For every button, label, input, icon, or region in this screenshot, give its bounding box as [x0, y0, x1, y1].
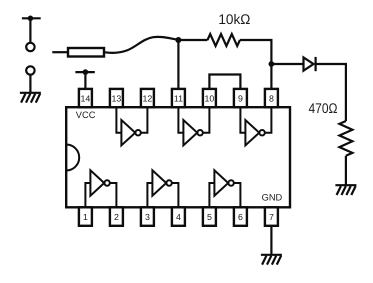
svg-text:8: 8 — [269, 93, 274, 103]
svg-text:12: 12 — [143, 93, 153, 103]
inverter U1 (input pin 13, output pin 12) — [116, 107, 147, 145]
node A (junction above pin 11) — [175, 37, 181, 43]
inverter U1 (input pin 5, output pin 6) — [209, 170, 240, 207]
terminal (lower open contact) — [26, 66, 34, 93]
VCC terminal (bar with dot above pin 14) — [75, 69, 94, 89]
svg-text:13: 13 — [112, 93, 122, 103]
inverter U1 (input pin 11, output pin 10) — [178, 107, 209, 145]
pin 3 — [141, 207, 154, 226]
wire (node A down to pin 11) — [177, 40, 179, 89]
resistor 10kΩ (zigzag) — [208, 34, 240, 46]
wire (node B to diode anode) — [271, 63, 303, 65]
svg-text:7: 7 — [269, 212, 274, 222]
svg-text:4: 4 — [176, 212, 181, 222]
IC U1 body (hex inverter DIP-14) — [66, 107, 290, 207]
pin 11 — [172, 89, 185, 107]
pin 4 — [172, 207, 185, 226]
inverter U1 (input pin 1, output pin 2) — [85, 170, 116, 207]
wire (pin 7 to ground) — [270, 226, 272, 255]
pin 1 — [79, 207, 92, 226]
svg-text:3: 3 — [145, 212, 150, 222]
svg-text:VCC: VCC — [76, 110, 96, 120]
wire (jumper loop pin 10 to pin 9) — [209, 75, 240, 89]
svg-text:1: 1 — [83, 212, 88, 222]
ground (below lower contact) — [20, 93, 41, 103]
svg-text:9: 9 — [238, 93, 243, 103]
svg-text:14: 14 — [81, 93, 91, 103]
svg-text:11: 11 — [174, 93, 183, 103]
diode (series to 470 ohm) — [304, 57, 316, 71]
pin 2 — [110, 207, 123, 226]
svg-text:2: 2 — [114, 212, 119, 222]
IC notch (pin-1 index semicircle) — [66, 145, 79, 171]
node B (junction at pin 8 / diode anode) — [269, 61, 275, 67]
inverter U1 (input pin 9, output pin 8) — [240, 107, 271, 145]
svg-text:6: 6 — [238, 212, 243, 222]
pin 7 — [265, 207, 278, 226]
pin 8 — [265, 89, 278, 107]
pin 13 — [110, 89, 123, 107]
svg-text:5: 5 — [207, 212, 212, 222]
svg-text:470Ω: 470Ω — [309, 100, 338, 116]
svg-text:10: 10 — [205, 93, 215, 103]
ground (below 470 ohm) — [335, 185, 356, 195]
pin 5 — [203, 207, 216, 226]
pin 6 — [234, 207, 247, 226]
resistor 470Ω (vertical zigzag) — [339, 121, 352, 156]
resistor (box symbol, series in VCC lead) — [52, 48, 104, 57]
inverter U1 (input pin 3, output pin 4) — [147, 170, 178, 207]
terminal (upper open contact) — [22, 15, 41, 51]
pin 12 — [141, 89, 154, 107]
pin 10 — [203, 89, 216, 107]
svg-text:GND: GND — [262, 192, 283, 202]
wire (resistor 470 to ground) — [345, 156, 347, 185]
wire (node A to resistor 10k) — [178, 39, 207, 41]
wire (resistor 10k to node B) — [240, 40, 272, 64]
ground (pin 7) — [261, 255, 282, 265]
wire (diode cathode to resistor 470) — [316, 64, 346, 121]
pin 9 — [234, 89, 247, 107]
svg-text:10kΩ: 10kΩ — [218, 11, 250, 27]
wire (curved lead from box resistor to node A) — [104, 37, 178, 53]
wire (node B down to pin 8) — [270, 64, 272, 89]
pin 14 — [79, 89, 92, 107]
